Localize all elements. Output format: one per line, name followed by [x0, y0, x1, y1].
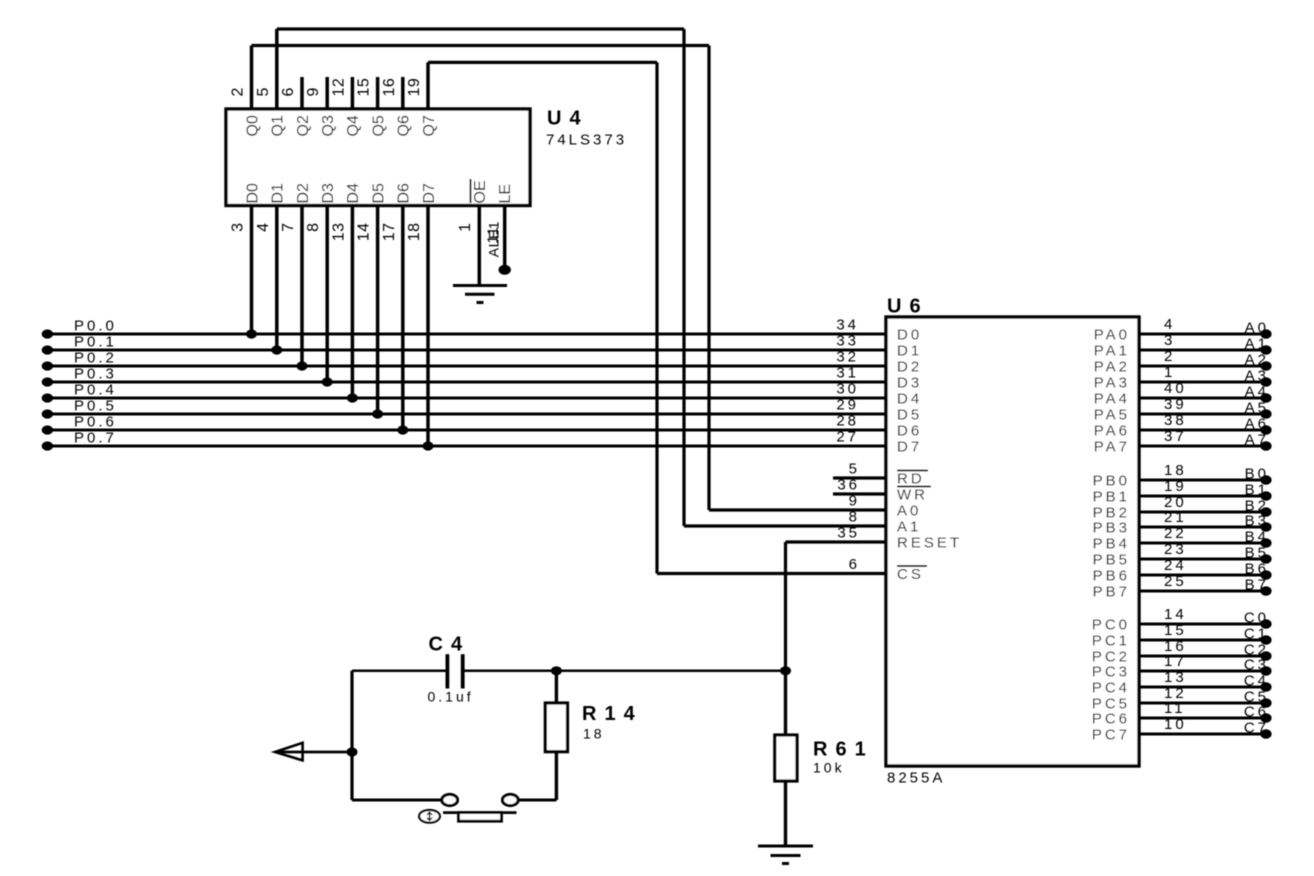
pin label PA1 [1094, 343, 1130, 360]
svg-text:4: 4 [1164, 316, 1175, 333]
svg-text:34: 34 [836, 317, 859, 334]
U6 pin 14 PC0 wire [1139, 623, 1270, 626]
bus wire P0.5 [47, 413, 886, 416]
pin label CS [897, 566, 927, 583]
net label A4 [1245, 384, 1269, 401]
svg-text:P0.1: P0.1 [74, 334, 117, 351]
svg-text:32: 32 [836, 349, 859, 366]
terminal dot A1 [1260, 345, 1271, 354]
net label B0 [1245, 466, 1269, 483]
svg-text:39: 39 [1164, 396, 1187, 413]
svg-text:14: 14 [356, 223, 373, 242]
U4 pin 15 Q5 stub [376, 77, 380, 109]
pin label PA2 [1094, 359, 1130, 376]
pin number 14 [1164, 606, 1187, 623]
pin number 20 [1164, 494, 1187, 511]
pin number 18 [1164, 462, 1187, 479]
terminal dot A0 [1260, 329, 1271, 338]
bus wire P0.2 [47, 365, 886, 368]
pin number 22 [1164, 525, 1187, 542]
wire switch left [352, 799, 442, 802]
U6 pin 10 PC7 wire [1139, 733, 1270, 736]
pin label Q4 [345, 115, 362, 136]
pin number 32 [836, 349, 859, 366]
U6 pin 8 A1 wire [684, 524, 886, 527]
svg-text:12: 12 [330, 78, 347, 97]
pushbutton SW marker [419, 810, 440, 823]
svg-text:18: 18 [1164, 462, 1187, 479]
svg-text:U4: U4 [547, 108, 589, 130]
terminal dot P0.6 [42, 425, 53, 434]
svg-text:PA6: PA6 [1094, 423, 1130, 440]
pin number 33 [836, 333, 859, 350]
pin number 7 [280, 223, 297, 232]
svg-text:D4: D4 [897, 391, 922, 408]
svg-text:P0.4: P0.4 [74, 382, 117, 399]
wire to arrow [276, 751, 352, 754]
pin label D2 [295, 183, 312, 204]
svg-text:PC3: PC3 [1092, 664, 1130, 681]
svg-text:P0.0: P0.0 [74, 318, 117, 335]
svg-text:37: 37 [1164, 428, 1187, 445]
svg-text:30: 30 [836, 381, 859, 398]
U6 pin 19 PB1 wire [1139, 495, 1270, 498]
pin number 12 [1164, 685, 1187, 702]
pin number 2 [1164, 348, 1175, 365]
net label P0.7 [74, 430, 117, 447]
net label C0 [1244, 610, 1269, 627]
pin label A0 [897, 503, 921, 520]
U4 pin 18 D7 wire to P0.7 [426, 206, 430, 447]
net label P0.1 [74, 334, 117, 351]
U6 pin 1 PA3 wire [1139, 381, 1270, 384]
svg-text:A1: A1 [897, 519, 921, 536]
pin number 30 [836, 381, 859, 398]
pin label Q2 [295, 115, 312, 136]
pin label PC6 [1092, 711, 1130, 728]
svg-text:D0: D0 [244, 183, 261, 204]
svg-text:23: 23 [1164, 541, 1187, 558]
svg-text:17: 17 [381, 223, 398, 242]
svg-text:PB4: PB4 [1093, 536, 1130, 553]
terminal dot B7 [1260, 586, 1271, 595]
pin label D1 [897, 343, 922, 360]
terminal dot B3 [1260, 522, 1271, 531]
U6 pin 5 RD wire [833, 476, 886, 479]
svg-text:0.1uf: 0.1uf [428, 689, 474, 705]
svg-text:5: 5 [255, 87, 272, 96]
label 18 [583, 726, 605, 742]
net label C5 [1244, 689, 1269, 706]
pin label OE [471, 179, 489, 204]
pin number 8 [305, 223, 322, 232]
svg-text:27: 27 [836, 429, 859, 446]
pin number 24 [1164, 557, 1187, 574]
junction R61 top [780, 666, 791, 675]
svg-text:D6: D6 [897, 423, 922, 440]
pin label D7 [897, 439, 922, 456]
svg-text:R14: R14 [582, 703, 643, 725]
svg-text:7: 7 [280, 223, 297, 232]
svg-text:25: 25 [1164, 573, 1187, 590]
U4 pin 5 Q1 stub [275, 29, 279, 109]
net label C6 [1244, 704, 1269, 721]
svg-text:6: 6 [849, 556, 860, 573]
svg-text:A0: A0 [897, 503, 921, 520]
svg-text:19: 19 [406, 78, 423, 97]
pin number 36 [837, 477, 860, 494]
net label C7 [1244, 720, 1269, 737]
pin label PC1 [1092, 633, 1130, 650]
U6 pin 13 PC4 wire [1139, 686, 1270, 689]
svg-text:U6: U6 [887, 296, 929, 318]
terminal dot P0.5 [42, 409, 53, 418]
terminal dot A5 [1260, 409, 1271, 418]
bus wire P0.3 [47, 381, 886, 384]
pin label Q7 [421, 115, 438, 136]
pin label D3 [320, 183, 337, 204]
U6 pin 9 A0 wire [709, 508, 886, 511]
pin label RESET [897, 535, 962, 552]
U6 pin 15 PC1 wire [1139, 639, 1270, 642]
label 0.1uf [428, 689, 474, 705]
U6 pin 25 PB7 wire [1139, 590, 1270, 593]
svg-text:P0.7: P0.7 [74, 430, 117, 447]
svg-text:PB3: PB3 [1093, 520, 1130, 537]
pin number 3 [1164, 332, 1175, 349]
pin label Q1 [270, 115, 287, 136]
svg-text:38: 38 [1164, 412, 1187, 429]
U6 pin 12 PC5 wire [1139, 702, 1270, 705]
pin number 8 [849, 509, 860, 526]
svg-text:Q2: Q2 [295, 115, 312, 136]
net label B3 [1245, 513, 1269, 530]
svg-text:1: 1 [457, 223, 474, 232]
svg-text:D7: D7 [421, 183, 438, 204]
svg-text:C4: C4 [429, 634, 471, 656]
U6 pin 22 PB4 wire [1139, 542, 1270, 545]
pin label PA6 [1094, 423, 1130, 440]
U4 pin 16 Q6 stub [401, 77, 405, 109]
IC U4 74LS373 body [226, 109, 530, 206]
pin number 1 [1164, 364, 1175, 381]
junction arrow node [347, 747, 358, 756]
svg-text:16: 16 [381, 78, 398, 97]
svg-text:CS: CS [897, 566, 924, 583]
pin number 2 [230, 87, 247, 96]
svg-text:PA4: PA4 [1094, 391, 1130, 408]
wire Q0 to A0 net [252, 46, 710, 511]
svg-text:33: 33 [836, 333, 859, 350]
terminal dot C2 [1260, 651, 1271, 660]
svg-text:PC0: PC0 [1092, 617, 1130, 634]
net label A6 [1245, 416, 1269, 433]
pin label D6 [897, 423, 922, 440]
pin label D4 [897, 391, 922, 408]
svg-text:D4: D4 [345, 183, 362, 204]
net label A5 [1245, 400, 1269, 417]
svg-text:Q4: Q4 [345, 115, 362, 136]
net label P0.5 [74, 398, 117, 415]
label U6 [887, 296, 929, 318]
net label ALE1 [486, 221, 502, 257]
U6 pin 16 PC2 wire [1139, 655, 1270, 658]
junction P0.0/D0 [246, 329, 257, 338]
svg-text:18: 18 [406, 223, 423, 242]
svg-text:2: 2 [230, 87, 247, 96]
svg-text:D2: D2 [295, 183, 312, 204]
terminal dot C4 [1260, 682, 1271, 691]
pin label PA3 [1094, 375, 1130, 392]
U6 pin 4 PA0 wire [1139, 333, 1270, 336]
U4 pin 3 D0 wire to P0.0 [250, 206, 254, 335]
pin label PC5 [1092, 696, 1130, 713]
pin number 10 [1164, 716, 1187, 733]
U6 pin 6 CS wire [657, 572, 886, 575]
svg-text:PB6: PB6 [1093, 568, 1130, 585]
pin number 17 [1164, 653, 1187, 670]
pin number 11 [1164, 700, 1186, 717]
pin label PB3 [1093, 520, 1130, 537]
ground under R61 [758, 846, 813, 864]
terminal dot A4 [1260, 393, 1271, 402]
svg-text:29: 29 [836, 397, 859, 414]
svg-text:35: 35 [837, 525, 860, 542]
U6 pin 40 PA4 wire [1139, 397, 1270, 400]
U4 pin 19 Q7 stub [426, 62, 430, 109]
net label P0.3 [74, 366, 117, 383]
switch SW contact right [502, 794, 518, 805]
net label P0.4 [74, 382, 117, 399]
svg-text:RD: RD [897, 471, 925, 488]
U4 pin 2 Q0 stub [250, 46, 254, 110]
pin number 1 [457, 223, 474, 232]
resistor R14 [545, 671, 567, 800]
svg-text:4: 4 [255, 223, 272, 232]
net label C1 [1244, 626, 1269, 643]
svg-text:Q6: Q6 [396, 115, 413, 136]
pin label LE [497, 184, 514, 204]
svg-text:PA3: PA3 [1094, 375, 1130, 392]
pin label D2 [897, 359, 922, 376]
svg-text:22: 22 [1164, 525, 1187, 542]
svg-text:6: 6 [280, 87, 297, 96]
resistor R61 [775, 671, 797, 846]
terminal dot C5 [1260, 698, 1271, 707]
U6 pin 3 PA1 wire [1139, 349, 1270, 352]
terminal dot P0.3 [42, 377, 53, 386]
wire C4 left vertical [350, 671, 353, 800]
svg-text:Q3: Q3 [320, 115, 337, 136]
svg-text:13: 13 [330, 223, 347, 242]
svg-text:1: 1 [1164, 364, 1175, 381]
net label C4 [1244, 673, 1269, 690]
U6 pin 24 PB6 wire [1139, 574, 1270, 577]
pin number 38 [1164, 412, 1187, 429]
label 8255A [887, 770, 945, 787]
pin number 4 [255, 223, 272, 232]
pin number 14 [356, 223, 373, 242]
U6 pin 2 PA2 wire [1139, 365, 1270, 368]
pin number 13 [1164, 669, 1187, 686]
net label P0.0 [74, 318, 117, 335]
pin number 9 [849, 493, 860, 510]
junction P0.7/D7 [423, 441, 434, 450]
net label B1 [1245, 482, 1269, 499]
pin number 40 [1164, 380, 1187, 397]
pin label WR [897, 487, 931, 504]
svg-text:RESET: RESET [897, 535, 962, 552]
U6 pin 36 WR wire [833, 492, 886, 495]
net label A1 [1245, 336, 1269, 353]
pin number 19 [406, 78, 423, 97]
svg-text:3: 3 [230, 223, 247, 232]
svg-text:31: 31 [836, 365, 859, 382]
pin label Q6 [396, 115, 413, 136]
pin number 39 [1164, 396, 1187, 413]
terminal dot C1 [1260, 635, 1271, 644]
pin number 17 [381, 223, 398, 242]
net label A0 [1245, 320, 1269, 337]
U6 pin 20 PB2 wire [1139, 511, 1270, 514]
pin number 9 [305, 87, 322, 96]
pin label D1 [270, 183, 287, 204]
U6 pin 21 PB3 wire [1139, 526, 1270, 529]
U4 pin 17 D6 wire to P0.6 [401, 206, 405, 431]
svg-text:10: 10 [1164, 716, 1187, 733]
input arrow terminal [275, 743, 303, 761]
svg-text:10k: 10k [813, 760, 845, 776]
net label B4 [1245, 529, 1269, 546]
svg-text:PA1: PA1 [1094, 343, 1130, 360]
svg-text:Q0: Q0 [244, 115, 261, 136]
label R14 [582, 703, 643, 725]
net label A3 [1245, 368, 1269, 385]
terminal dot B1 [1260, 491, 1271, 500]
bus wire P0.7 [47, 445, 886, 448]
pin label PC7 [1092, 727, 1130, 744]
svg-text:11: 11 [1164, 700, 1186, 717]
wire Q1 to A1 net [277, 29, 684, 526]
U6 pin 17 PC3 wire [1139, 670, 1270, 673]
pin label PB5 [1093, 552, 1130, 569]
svg-text:Q7: Q7 [421, 115, 438, 136]
pin label PB1 [1093, 489, 1130, 506]
U6 pin 35 RESET wire [786, 540, 887, 543]
pin number 6 [280, 87, 297, 96]
U6 pin 18 PB0 wire [1139, 479, 1270, 482]
svg-text:74LS373: 74LS373 [546, 132, 627, 149]
svg-text:LE: LE [497, 184, 514, 204]
junction P0.2/D2 [297, 361, 308, 370]
pin number 35 [837, 525, 860, 542]
pin number 28 [836, 413, 859, 430]
capacitor C4 [447, 654, 462, 688]
svg-text:PC6: PC6 [1092, 711, 1130, 728]
svg-text:40: 40 [1164, 380, 1187, 397]
pin label D5 [897, 407, 922, 424]
wire Q7 to CS net [428, 62, 657, 573]
svg-text:D5: D5 [897, 407, 922, 424]
pin label PC4 [1092, 680, 1130, 697]
svg-text:8: 8 [849, 509, 860, 526]
wire RESET vertical to RC node [784, 542, 787, 671]
pin number 34 [836, 317, 859, 334]
junction P0.3/D3 [322, 377, 333, 386]
svg-text:D6: D6 [396, 183, 413, 204]
svg-text:P0.5: P0.5 [74, 398, 117, 415]
svg-text:Q5: Q5 [370, 115, 387, 136]
pin number 13 [330, 223, 347, 242]
terminal dot B2 [1260, 507, 1271, 516]
pin number 31 [836, 365, 859, 382]
net label P0.2 [74, 350, 117, 367]
pin label Q3 [320, 115, 337, 136]
junction R14 top [551, 666, 562, 675]
svg-text:3: 3 [1164, 332, 1175, 349]
bus wire P0.6 [47, 429, 886, 432]
U4 pin 8 D3 wire to P0.3 [325, 206, 329, 383]
junction P0.4/D4 [347, 393, 358, 402]
terminal dot B6 [1260, 570, 1271, 579]
svg-text:2: 2 [1164, 348, 1175, 365]
net label B5 [1245, 545, 1269, 562]
svg-text:D2: D2 [897, 359, 922, 376]
pin label PC3 [1092, 664, 1130, 681]
svg-text:24: 24 [1164, 557, 1187, 574]
pin number 18 [406, 223, 423, 242]
U4 pin 9 Q3 stub [325, 77, 329, 109]
svg-text:9: 9 [849, 493, 860, 510]
terminal dot P0.2 [42, 361, 53, 370]
terminal dot ALE1 [499, 265, 511, 275]
U6 pin 11 PC6 wire [1139, 717, 1270, 720]
svg-text:P0.6: P0.6 [74, 414, 117, 431]
pin label Q5 [370, 115, 387, 136]
terminal dot C7 [1260, 729, 1271, 738]
pin label PB7 [1093, 584, 1130, 601]
svg-text:21: 21 [1164, 509, 1187, 526]
svg-text:36: 36 [837, 477, 860, 494]
pin label D0 [897, 327, 922, 344]
pushbutton SW actuator bar [443, 813, 517, 822]
bus wire P0.4 [47, 397, 886, 400]
U6 pin 23 PB5 wire [1139, 558, 1270, 561]
bus wire P0.1 [47, 349, 886, 352]
U4 pin 7 D2 wire to P0.2 [300, 206, 304, 367]
terminal dot P0.0 [42, 329, 53, 338]
pin number 4 [1164, 316, 1175, 333]
U4 pin 6 Q2 stub [300, 77, 304, 109]
svg-text:D7: D7 [897, 439, 922, 456]
terminal dot A7 [1260, 441, 1271, 450]
svg-text:R61: R61 [813, 739, 874, 761]
terminal dot C0 [1260, 619, 1271, 628]
label C4 [429, 634, 471, 656]
pin label D5 [370, 183, 387, 204]
pin label PA0 [1094, 327, 1130, 344]
pin label PB2 [1093, 505, 1130, 522]
terminal dot B0 [1260, 475, 1271, 484]
pin number 5 [849, 461, 860, 478]
pin label PB6 [1093, 568, 1130, 585]
pin label D4 [345, 183, 362, 204]
net label A7 [1245, 432, 1269, 449]
IC U6 8255A body [886, 317, 1139, 766]
pin label RD [897, 471, 928, 488]
svg-text:8: 8 [305, 223, 322, 232]
svg-text:PA7: PA7 [1094, 439, 1130, 456]
